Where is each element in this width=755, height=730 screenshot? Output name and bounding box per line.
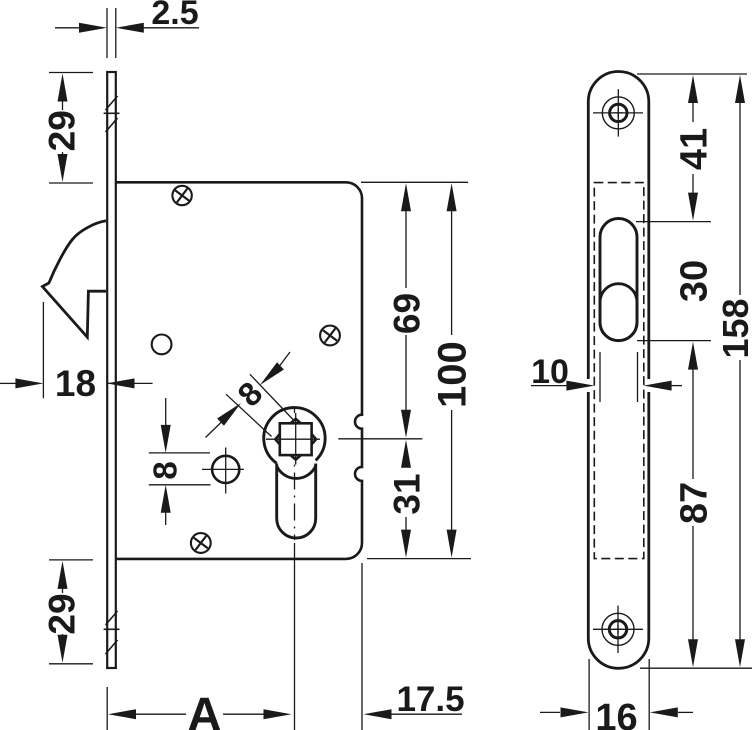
svg-text:41: 41 — [674, 128, 716, 170]
svg-text:100: 100 — [431, 341, 475, 408]
svg-text:2.5: 2.5 — [151, 0, 198, 32]
svg-text:30: 30 — [674, 260, 716, 302]
svg-text:17.5: 17.5 — [396, 680, 464, 719]
svg-text:16: 16 — [595, 697, 637, 730]
svg-text:18: 18 — [55, 363, 96, 404]
svg-text:8: 8 — [147, 461, 184, 479]
svg-text:87: 87 — [674, 482, 716, 524]
svg-text:69: 69 — [387, 293, 428, 334]
svg-text:158: 158 — [715, 298, 755, 358]
svg-text:31: 31 — [387, 473, 428, 514]
svg-text:29: 29 — [42, 593, 83, 634]
svg-text:A: A — [187, 689, 222, 730]
svg-text:10: 10 — [531, 353, 569, 391]
svg-text:29: 29 — [42, 110, 83, 151]
